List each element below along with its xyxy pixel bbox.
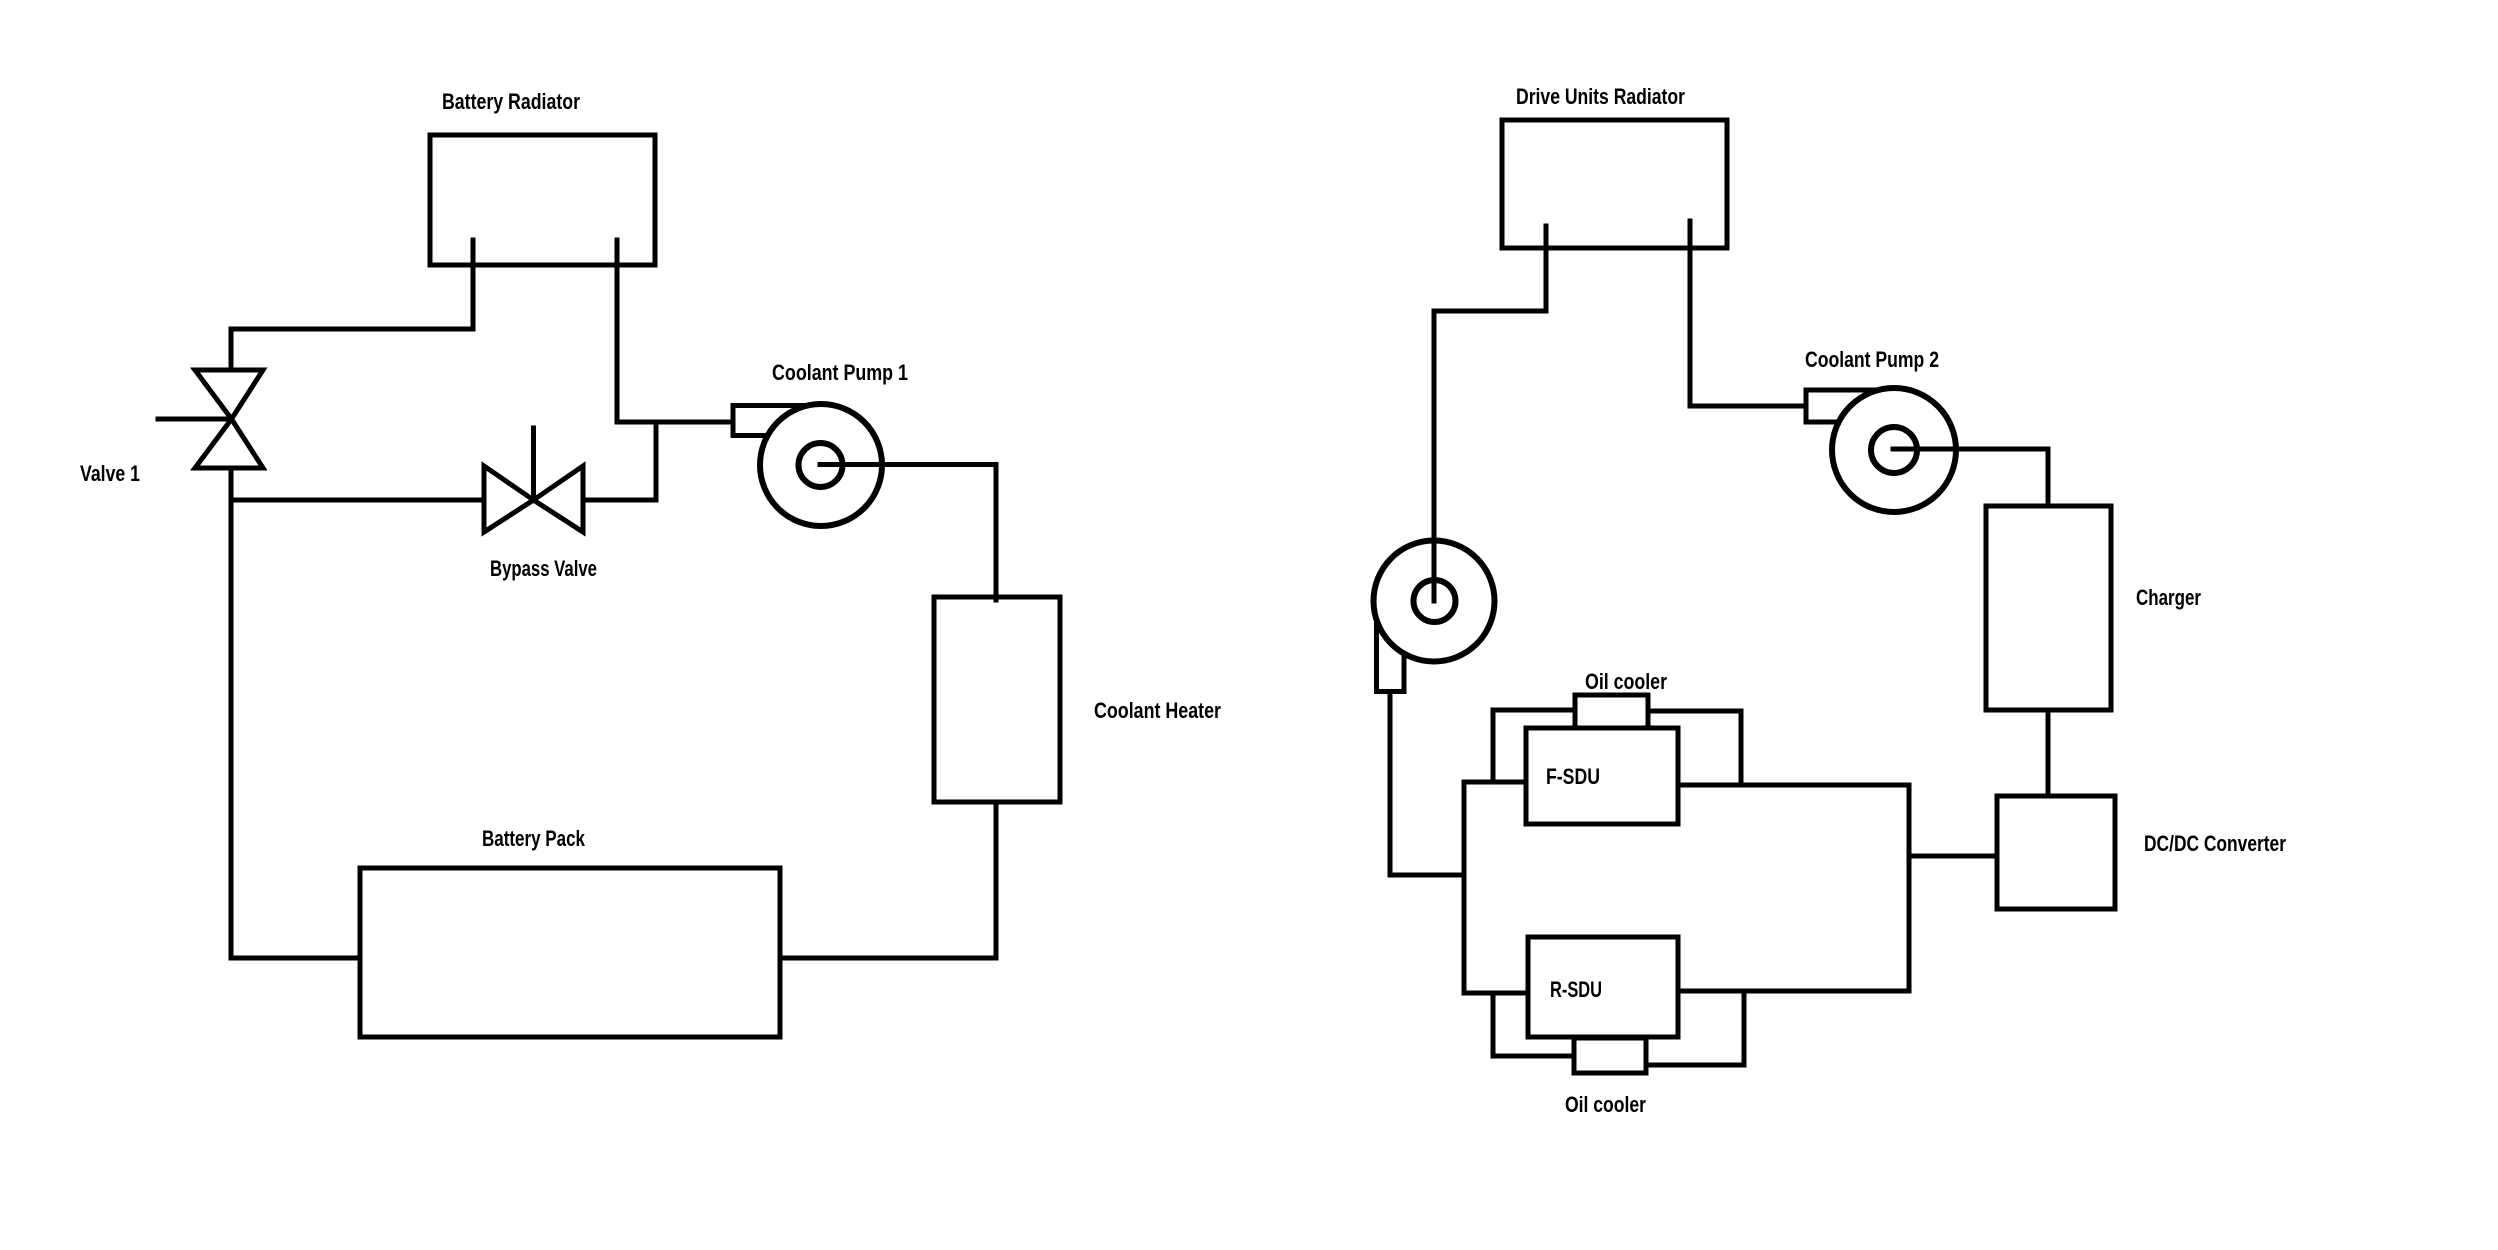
wire down to heater (994, 465, 999, 601)
wire battery pack left to valve line (231, 956, 360, 961)
wire pump 3 outlet to input column (1390, 873, 1464, 878)
svg-text:Oil cooler: Oil cooler (1585, 669, 1667, 694)
wire R-SDU input (1464, 991, 1528, 996)
valve V1 (158, 370, 263, 468)
svg-text:Battery Radiator: Battery Radiator (442, 89, 580, 114)
bypass valve (484, 428, 583, 532)
svg-text:DC/DC Converter: DC/DC Converter (2144, 831, 2286, 856)
wire left to pump 3 column (1434, 309, 1546, 314)
coolant pump 3 (1374, 541, 1495, 692)
wire to pump 2 inlet (1690, 404, 1806, 409)
coolant pump 1 (733, 404, 882, 526)
wire to pump 1 inlet (617, 420, 733, 425)
svg-text:Drive Units Radiator: Drive Units Radiator (1516, 84, 1685, 109)
svg-text:Oil cooler: Oil cooler (1565, 1092, 1646, 1117)
svg-text:Bypass Valve: Bypass Valve (490, 556, 597, 581)
wire charger to DC/DC converter (2046, 710, 2051, 796)
oil cooler (bottom) (1574, 1038, 1646, 1073)
svg-text:Coolant Pump 2: Coolant Pump 2 (1805, 347, 1939, 372)
wire radiator left port down (1544, 226, 1549, 311)
wire input column vertical (1462, 782, 1467, 993)
wire radiator right port down (615, 240, 620, 422)
wire F-SDU output (1678, 783, 1909, 788)
charger (1986, 506, 2111, 710)
svg-text:R-SDU: R-SDU (1550, 977, 1602, 1002)
wire bypass valve to main line (583, 498, 656, 503)
battery radiator (430, 135, 655, 265)
wire oil cooler top left (1493, 710, 1575, 782)
wire pump 1 outlet (820, 462, 996, 467)
wire radiator right port down (1688, 221, 1693, 406)
svg-text:Valve 1: Valve 1 (80, 461, 140, 486)
coolant heater (934, 597, 1060, 802)
wire pump 3 inlet (1432, 311, 1437, 601)
wire radiator-to-valve horizontal (231, 327, 473, 332)
wire heater to battery pack (780, 956, 996, 961)
oil cooler (top) (1575, 695, 1648, 728)
wire down to charger (2046, 449, 2051, 506)
wire DC/DC to return column (1909, 854, 1997, 859)
wire oil cooler bottom right (1646, 991, 1744, 1065)
svg-text:Coolant Heater: Coolant Heater (1094, 698, 1221, 723)
wire valve V1 down to battery pack level (229, 468, 234, 958)
svg-text:Charger: Charger (2136, 585, 2201, 610)
svg-text:F-SDU: F-SDU (1546, 764, 1600, 789)
wire return column vertical (1907, 785, 1912, 991)
wire F-SDU input (1464, 780, 1526, 785)
wire pump 2 outlet (1893, 447, 2048, 452)
battery pack (360, 868, 780, 1037)
wire R-SDU output (1678, 989, 1909, 994)
wire radiator left port down (471, 240, 476, 329)
wire oil cooler bottom left (1493, 993, 1574, 1056)
F-SDU (1526, 728, 1678, 824)
wire pump 3 outlet (1388, 692, 1393, 876)
wire branch up to pump line (654, 422, 659, 500)
wire down to valve V1 (229, 329, 234, 368)
wire oil cooler top right (1648, 711, 1741, 785)
drive units radiator (1502, 120, 1727, 248)
svg-text:Battery Pack: Battery Pack (482, 826, 586, 851)
R-SDU (1528, 937, 1678, 1037)
wire heater outlet down (994, 802, 999, 958)
DC/DC converter (1997, 796, 2115, 909)
coolant pump 2 (1806, 388, 1956, 512)
svg-text:Coolant Pump 1: Coolant Pump 1 (772, 360, 908, 385)
wire junction to bypass valve (231, 498, 484, 503)
